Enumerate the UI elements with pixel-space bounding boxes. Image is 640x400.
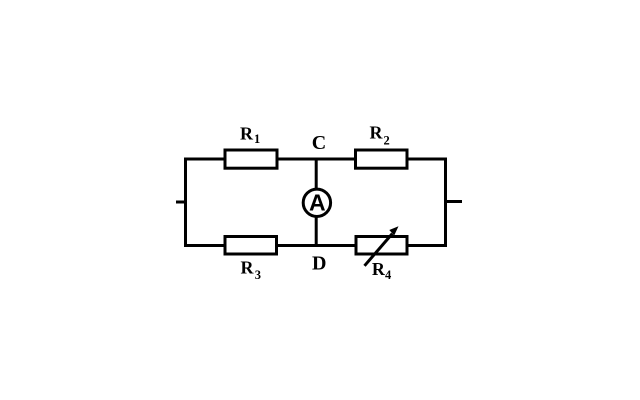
wire bottom rail	[184, 244, 447, 247]
svg-text:R: R	[240, 123, 254, 143]
resistor R2 body	[356, 150, 408, 168]
wire right branch	[444, 158, 447, 248]
svg-text:A: A	[309, 190, 326, 216]
svg-text:4: 4	[385, 268, 392, 282]
ammeter A1 circle	[303, 189, 330, 216]
resistor R3 body	[225, 237, 277, 255]
svg-text:R: R	[370, 123, 384, 143]
svg-text:R: R	[241, 258, 255, 278]
wire left branch	[184, 158, 187, 248]
svg-text:3: 3	[255, 268, 261, 282]
svg-text:C: C	[312, 132, 326, 154]
wire bridge upper (C to ammeter)	[315, 158, 318, 191]
variable resistor R4 arrowhead	[389, 226, 398, 235]
wire bridge lower (ammeter to D)	[315, 216, 318, 247]
svg-text:R: R	[372, 259, 386, 279]
resistor R1 body	[225, 150, 277, 168]
wire top rail	[184, 158, 447, 161]
right terminal stub	[444, 200, 462, 203]
svg-text:1: 1	[254, 132, 260, 146]
svg-text:D: D	[312, 253, 326, 275]
svg-text:2: 2	[384, 134, 390, 148]
left terminal stub	[176, 201, 187, 204]
resistor R4 body (variable)	[356, 237, 407, 255]
variable resistor R4 arrow shaft	[365, 234, 393, 266]
